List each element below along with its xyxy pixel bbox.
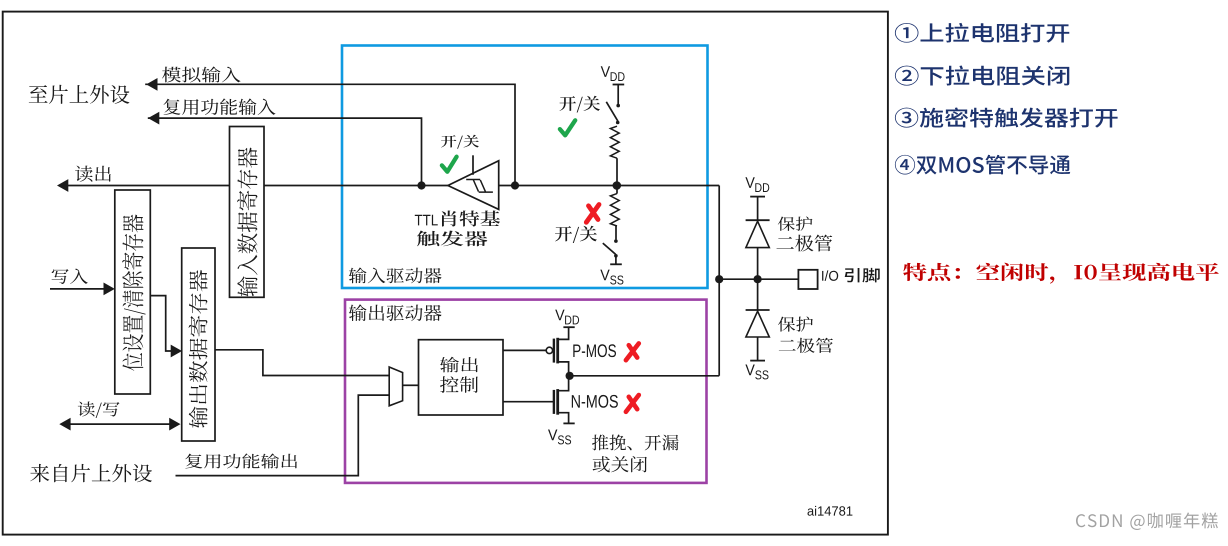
green check (schmitt trigger on) — [442, 157, 457, 172]
red X (P-MOS off) — [626, 343, 639, 360]
P-MOS Q1 gate bar — [553, 339, 555, 363]
analog input wire — [145, 84, 515, 185]
vertical label input data register 输入数据寄存器 — [237, 148, 257, 297]
pull-down switch bottom dot — [614, 254, 618, 258]
I/O pin square — [798, 270, 817, 289]
protection diode D2 cathode bar — [746, 309, 770, 311]
annotation 2 pull-down resistor off — [895, 65, 1069, 85]
label read/write 读/写 — [78, 402, 120, 418]
wire trunk input node to output node — [718, 186, 720, 376]
VSS bar (N-MOS) — [563, 422, 574, 424]
read/write left arrow — [59, 418, 70, 431]
label on/off pull-down 开/关 — [555, 226, 597, 243]
N-MOS drain lead to node — [558, 376, 569, 391]
wire D2 to VSS — [757, 337, 759, 361]
pull-up resistor R-up — [610, 126, 619, 158]
VSS stub (pull-down) — [615, 256, 617, 264]
wire tee to pad — [719, 278, 798, 280]
label alternate function output 复用功能输出 — [185, 454, 297, 469]
protection diode D2 triangle — [746, 311, 769, 337]
wire D1 to pad node to D2 — [757, 248, 759, 310]
main node dot (pull divider) — [613, 181, 622, 190]
output control box — [419, 340, 504, 415]
label TTL — [415, 215, 438, 226]
VDD bar (upper protection diode) — [750, 196, 765, 198]
wire output node to trunk — [570, 375, 720, 377]
VDD supply bar (pull-up) — [613, 84, 625, 86]
label pin 引脚 — [845, 268, 880, 283]
VDD stub upper diode — [757, 197, 759, 221]
N-MOS source lead to VSS — [558, 413, 569, 424]
mux trapezoid — [389, 367, 402, 406]
outer frame — [3, 12, 888, 535]
vertical label output data register 输出数据寄存器 — [189, 270, 208, 428]
VSS bar (pull-down) — [610, 263, 622, 265]
write-in arrow — [104, 283, 115, 296]
vertical label bit set/clear register 位设置/清除寄存器 — [122, 215, 146, 371]
label schmitt 肖特基 — [442, 210, 500, 226]
label trigger 触发器 — [417, 231, 487, 247]
wire output data register to mux — [215, 350, 390, 376]
label output driver 输出驱动器 — [349, 304, 442, 321]
TTL schmitt trigger U1 triangle — [448, 161, 499, 210]
N-MOS channel bar — [556, 389, 559, 415]
node dot alternate function tap — [417, 181, 425, 189]
wire output control to P-MOS gate — [503, 349, 546, 351]
read-out arrow — [57, 179, 68, 192]
watermark CSDN — [1076, 512, 1218, 529]
VDD stub — [617, 85, 619, 105]
label N-MOS — [572, 395, 618, 408]
input-driver box (blue) — [342, 46, 708, 289]
label from on-chip peripherals 来自片上外设 — [30, 464, 152, 482]
wire node down to pull-down resistor — [616, 186, 618, 194]
label protection 保护 upper — [778, 217, 813, 231]
label VDD diode — [745, 177, 769, 192]
output-driver box (purple) — [345, 300, 707, 483]
P-MOS source lead to VDD — [558, 327, 569, 339]
pull-down switch top dot — [614, 239, 618, 243]
annotation 1 pull-up resistor on — [895, 23, 1069, 43]
read/write wire — [66, 423, 172, 425]
label ai14781 — [808, 506, 853, 516]
bit set/clear register box — [115, 190, 151, 394]
output data register box — [182, 248, 215, 441]
label VDD P-MOS — [555, 310, 579, 325]
P-MOS gate bubble — [546, 347, 552, 353]
wire mux to output control — [403, 384, 419, 386]
read-out wire mid segment — [264, 185, 448, 187]
label VSS diode — [745, 365, 768, 380]
annotation 4 both MOS off — [895, 155, 1070, 175]
write-in wire — [50, 288, 104, 290]
wire output control to N-MOS gate — [503, 401, 553, 403]
schmitt trigger enable stub — [472, 155, 474, 175]
label protection 保护 lower — [778, 317, 813, 332]
label diode 二极管 lower — [779, 338, 833, 353]
wire resistor to switch — [615, 226, 617, 239]
pull-down resistor R-down — [610, 194, 619, 226]
analog input arrow — [146, 78, 157, 91]
label VDD pull-up — [601, 66, 625, 81]
red X (pull-down off) — [586, 205, 599, 223]
green check (pull-up on) — [560, 120, 575, 135]
protection diode D1 triangle — [746, 221, 769, 247]
annotation 3 schmitt trigger on — [895, 108, 1118, 128]
read/write right arrow — [169, 418, 180, 431]
label on/off pull-up 开/关 — [560, 96, 601, 113]
node dot analog tap — [511, 181, 519, 189]
label write-in 写入 — [52, 269, 88, 284]
pull-down switch blade — [603, 243, 616, 254]
output node dot — [566, 372, 574, 380]
label analog input 模拟输入 — [162, 66, 240, 82]
VSS bar (lower protection diode) — [750, 360, 765, 362]
label on/off trigger 开/关 — [441, 135, 479, 149]
alternate function input wire — [148, 118, 422, 185]
red annotation idle high level — [903, 263, 1219, 284]
label input driver 输入驱动器 — [349, 267, 442, 283]
label push-pull open-drain 推挽、开漏 — [592, 434, 678, 450]
label VSS pull-down — [600, 270, 623, 285]
label P-MOS — [573, 344, 616, 357]
arrow into output data register — [171, 345, 182, 358]
label output 输出 (control box) — [440, 357, 478, 373]
trunk tee dot to I/O pin — [715, 275, 723, 283]
label to on-chip peripherals 至片上外设 — [29, 85, 130, 104]
label I/O — [822, 270, 838, 280]
alternate function input arrow — [148, 112, 159, 125]
label VSS N-MOS — [548, 430, 571, 445]
red X (N-MOS off) — [626, 395, 639, 412]
VDD bar (P-MOS) — [563, 326, 574, 328]
input data register box — [230, 127, 265, 298]
wire bitset register to output register — [150, 296, 180, 351]
label control 控制 (control box) — [440, 376, 478, 393]
wire trigger output junction to pull node — [499, 185, 720, 187]
label alternate function input 复用功能输入 — [164, 99, 276, 116]
label read-out 读出 — [75, 166, 111, 182]
P-MOS channel bar — [556, 338, 559, 364]
hysteresis symbol — [466, 180, 493, 193]
protection diode D1 cathode bar — [746, 219, 770, 221]
read-out wire left segment — [66, 185, 230, 187]
label or off 或关闭 — [593, 456, 647, 472]
alternate function output wire — [176, 395, 390, 476]
wire resistor to node — [616, 158, 618, 185]
P-MOS drain lead to node — [558, 362, 569, 376]
pad node dot — [754, 275, 762, 283]
label diode 二极管 upper — [776, 235, 832, 252]
N-MOS Q2 gate bar — [553, 390, 555, 414]
pull-up switch blade — [606, 102, 618, 121]
pull-up switch top contact dot — [616, 104, 620, 108]
pull-up switch bottom dot — [616, 121, 620, 125]
